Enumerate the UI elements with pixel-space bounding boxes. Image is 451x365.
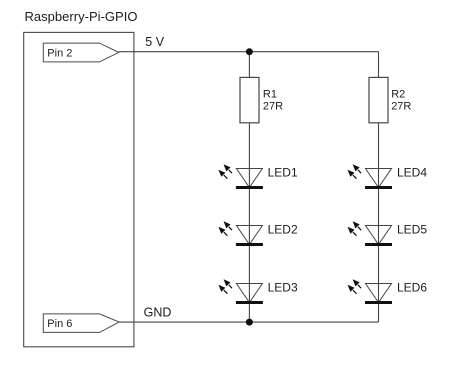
wire right LED chain vertical <box>378 52 380 322</box>
svg-text:LED2: LED2 <box>268 222 298 236</box>
svg-text:LED6: LED6 <box>397 280 427 294</box>
svg-text:GND: GND <box>144 306 172 320</box>
svg-text:Pin 2: Pin 2 <box>47 47 72 59</box>
svg-text:Raspberry-Pi-GPIO: Raspberry-Pi-GPIO <box>25 9 138 24</box>
wire GND horizontal <box>119 321 378 323</box>
LED LED5 symbol <box>348 221 393 244</box>
LED LED2 symbol <box>218 221 263 244</box>
wire left LED chain vertical <box>248 52 250 322</box>
svg-text:R1: R1 <box>263 88 277 100</box>
svg-text:LED4: LED4 <box>397 165 427 179</box>
svg-text:27R: 27R <box>263 101 283 113</box>
resistor R2 body <box>369 77 388 122</box>
svg-text:5 V: 5 V <box>145 35 164 49</box>
LED LED6 symbol <box>348 279 393 302</box>
LED LED3 symbol <box>218 279 263 302</box>
svg-text:Pin 6: Pin 6 <box>47 318 72 330</box>
svg-text:LED1: LED1 <box>268 165 298 179</box>
GPIO module box <box>24 32 134 346</box>
LED LED1 symbol <box>218 164 263 187</box>
connector Pin 2 <box>43 43 119 62</box>
svg-text:LED5: LED5 <box>397 222 427 236</box>
LED LED4 symbol <box>348 164 393 187</box>
resistor R1 body <box>240 77 259 122</box>
label R1 value 27R <box>263 88 283 112</box>
connector Pin 6 <box>43 314 119 333</box>
svg-text:LED3: LED3 <box>268 280 298 294</box>
svg-text:R2: R2 <box>391 88 405 100</box>
wire 5V horizontal <box>119 51 379 53</box>
junction node top (5V rail) <box>246 48 253 55</box>
junction node bottom (GND rail) <box>246 319 253 326</box>
label R2 value 27R <box>391 88 411 112</box>
svg-text:27R: 27R <box>391 101 411 113</box>
